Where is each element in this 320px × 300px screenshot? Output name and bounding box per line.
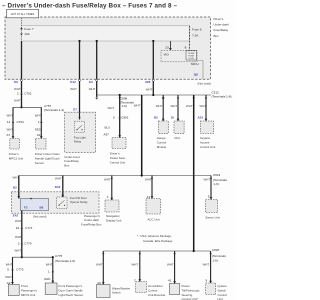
- wire arrow into front passenger MPCS unit: [11, 282, 14, 284]
- fog light relay sub-box: [74, 121, 84, 132]
- svg-text:D16: D16: [55, 185, 61, 189]
- svg-text:WHT: WHT: [46, 262, 53, 266]
- svg-text:Navigation: Navigation: [106, 214, 120, 218]
- wire arrow into power tilt/telescopic unit: [173, 281, 176, 283]
- svg-text:Stereo Unit: Stereo Unit: [205, 216, 220, 220]
- svg-text:WHT: WHT: [55, 177, 62, 181]
- fuse 8 wire (dashed): [189, 26, 191, 51]
- svg-text:WHT: WHT: [5, 275, 12, 279]
- svg-text:Immobilizer: Immobilizer: [148, 284, 163, 288]
- svg-text:Passenger’s: Passenger’s: [21, 288, 38, 292]
- C919 drops: bose unit: [210, 176, 212, 180]
- C919 drops: ACC unit: [151, 176, 153, 180]
- svg-text:WHT: WHT: [15, 235, 22, 239]
- svg-text:WHT: WHT: [132, 262, 139, 266]
- svg-text:WHT: WHT: [7, 114, 14, 118]
- drop: DLC: [177, 98, 180, 100]
- svg-text:WHT: WHT: [7, 128, 14, 132]
- svg-text:Display Unit: Display Unit: [106, 218, 122, 222]
- svg-text:Fuse/Relay: Fuse/Relay: [214, 28, 229, 32]
- fuse 7: [20, 27, 23, 29]
- svg-text:WHT: WHT: [104, 177, 111, 181]
- svg-text:A7: A7: [7, 133, 11, 137]
- wire arrow into MICU: [169, 48, 172, 50]
- C926 line: [103, 250, 210, 252]
- svg-text:Fog Light: Fog Light: [74, 135, 86, 139]
- wire K9: [21, 41, 23, 107]
- svg-text:Ignition: Ignition: [218, 284, 228, 288]
- drop: power seat: [119, 94, 121, 96]
- wire arrow into fuel fill relay coil: [17, 196, 20, 198]
- svg-text:14: 14: [7, 120, 11, 124]
- svg-text:C901: C901: [121, 116, 129, 120]
- drop: long wire to C919 line: [141, 95, 143, 176]
- svg-text:D12: D12: [70, 80, 76, 84]
- wire arrow into immobilizer unit: [138, 279, 141, 281]
- svg-text:(Terminals: (Terminals: [212, 254, 226, 258]
- svg-text:C773: C773: [16, 268, 24, 272]
- svg-text:C775: C775: [55, 254, 63, 258]
- MICU dashed box: [161, 50, 197, 62]
- svg-text:Control Unit: Control Unit: [200, 145, 215, 149]
- wire arrow into power seat control unit: [118, 135, 121, 137]
- svg-text:(Not used): (Not used): [33, 214, 47, 218]
- svg-text:1-6): 1-6): [214, 182, 219, 186]
- svg-text:(Terminals 1-4): (Terminals 1-4): [44, 108, 64, 112]
- svg-text:Passenger’s: Passenger’s: [84, 214, 101, 218]
- svg-text:(Terminals 1-6): (Terminals 1-6): [212, 95, 232, 99]
- svg-text:B6: B6: [40, 206, 44, 210]
- svg-text:(Terminals 1-6): (Terminals 1-6): [55, 259, 75, 263]
- svg-text:WHT: WHT: [15, 219, 22, 223]
- svg-text:Driver’s: Driver’s: [214, 17, 224, 21]
- svg-text:WHT: WHT: [134, 104, 141, 108]
- svg-text:RED: RED: [44, 277, 50, 281]
- drop: ignition switch: [209, 251, 211, 255]
- svg-text:WHT: WHT: [14, 87, 21, 91]
- wire from hot box to fuse 7: [21, 18, 23, 41]
- svg-text:1-6): 1-6): [122, 104, 127, 108]
- svg-text:WHT: WHT: [35, 114, 42, 118]
- wire G3 feeding C808 line: [96, 41, 98, 97]
- wire arrow into Driver's door outer handle sensor: [40, 136, 43, 138]
- svg-text:Front: Front: [21, 284, 28, 288]
- drop: long wire to C926 line: [192, 98, 195, 100]
- left drop to Driver's MPCS unit: [12, 107, 14, 138]
- C919 line: [19, 175, 211, 177]
- svg-text:Fuse 8: Fuse 8: [192, 27, 202, 31]
- svg-text:HOT AT ALL TIMES: HOT AT ALL TIMES: [11, 12, 35, 16]
- driver's under-dash fuse/relay box (dashed enclosure): [5, 17, 211, 79]
- svg-text:G3: G3: [89, 80, 93, 84]
- label: Driver's Under-dash Fuse/Relay Box: [214, 17, 229, 38]
- svg-text:Driver’s: Driver’s: [110, 152, 120, 156]
- coil box: [21, 199, 49, 211]
- svg-text:Under-dash: Under-dash: [84, 218, 99, 222]
- svg-text:C771: C771: [25, 226, 33, 230]
- svg-text:ACC Unit: ACC Unit: [148, 217, 160, 221]
- svg-text:WHT: WHT: [171, 104, 178, 108]
- wire arrow into gauge control module: [162, 119, 165, 121]
- svg-text:Fuse/Relay Box: Fuse/Relay Box: [81, 223, 102, 227]
- wire arrow into wiper/washer switch: [102, 282, 105, 284]
- drop: wiper/washer switch: [102, 251, 104, 255]
- svg-text:WHT: WHT: [200, 104, 207, 108]
- svg-text:WHT: WHT: [156, 104, 163, 108]
- svg-text:E43: E43: [13, 213, 19, 217]
- right drop to Driver's door outer handle: [40, 107, 42, 138]
- dome fuse lock sub-box: [186, 51, 197, 60]
- svg-text:Under-dash: Under-dash: [214, 23, 229, 27]
- svg-text:WHT: WHT: [14, 99, 21, 103]
- svg-text:E7: E7: [73, 108, 77, 112]
- wire arrow into DLC: [177, 119, 180, 121]
- svg-text:Module: Module: [157, 145, 167, 149]
- svg-text:C754: C754: [17, 120, 25, 124]
- wire X28 feeding C808 line: [152, 41, 154, 95]
- svg-text:VIO: VIO: [164, 52, 170, 56]
- E43 chain down: [21, 211, 23, 258]
- wire arrow into stereo unit: [210, 197, 213, 199]
- svg-text:Switch: Switch: [112, 291, 121, 295]
- svg-text:K9: K9: [14, 80, 18, 84]
- svg-text:WHT: WHT: [203, 262, 210, 266]
- svg-text:Under-hood: Under-hood: [64, 155, 80, 159]
- svg-text:WHT: WHT: [186, 104, 193, 108]
- svg-text:WHT: WHT: [167, 262, 174, 266]
- svg-text:WHT: WHT: [70, 87, 77, 91]
- Q8 exit wire: [197, 60, 204, 62]
- drop: front passenger door handle: [52, 257, 54, 283]
- Driver's MPCS unit box: [10, 139, 19, 150]
- svg-text:Relay: Relay: [74, 140, 82, 144]
- svg-text:Control: Control: [218, 293, 228, 297]
- wire arrow into ACC unit: [151, 196, 154, 198]
- svg-text:10A: 10A: [24, 32, 30, 36]
- wire arrow into Driver's MPCS unit: [12, 136, 15, 138]
- svg-text:A37: A37: [104, 132, 110, 136]
- svg-text:MICU: MICU: [191, 62, 199, 66]
- D16 wire: [62, 176, 64, 198]
- svg-text:Steering: Steering: [182, 293, 193, 297]
- svg-text:Driver’s: Driver’s: [9, 152, 19, 156]
- fuel fill door opener relay box: [11, 192, 99, 213]
- svg-text:* : USA: Advance Package,: * : USA: Advance Package,: [137, 234, 172, 238]
- svg-text:7.5A: 7.5A: [192, 33, 199, 37]
- svg-text:DLC: DLC: [175, 136, 181, 140]
- svg-text:Control Unit: Control Unit: [110, 160, 125, 164]
- wire arrow into front passenger door handle sensor: [51, 281, 54, 283]
- svg-text:Control: Control: [157, 140, 167, 144]
- svg-text:X28: X28: [145, 80, 151, 84]
- svg-text:C752: C752: [24, 92, 32, 96]
- svg-text:WHT: WHT: [89, 87, 96, 91]
- svg-text:WHT: WHT: [6, 262, 13, 266]
- svg-text:RED: RED: [35, 128, 41, 132]
- drop: immobilizer: [139, 251, 141, 255]
- hot at all times box: [6, 10, 38, 18]
- svg-text:Wiper/Washer: Wiper/Washer: [112, 286, 130, 290]
- svg-text:MPCS Unit: MPCS Unit: [9, 156, 23, 160]
- svg-text:Fuel Fill Door: Fuel Fill Door: [70, 196, 87, 200]
- svg-text:WHT: WHT: [96, 262, 103, 266]
- svg-text:LOCK: LOCK: [188, 58, 194, 60]
- svg-text:41: 41: [168, 278, 172, 282]
- svg-text:Power Seat: Power Seat: [110, 156, 125, 160]
- junction to C757 line: [20, 106, 22, 108]
- svg-text:(Terminals: (Terminals: [213, 178, 227, 182]
- svg-text:BLU: BLU: [105, 125, 111, 129]
- svg-text:C919: C919: [213, 173, 221, 177]
- svg-text:C926: C926: [212, 248, 220, 252]
- svg-text:Fuse/Relay: Fuse/Relay: [64, 159, 79, 163]
- svg-text:Control: Control: [148, 288, 158, 292]
- internal bus box: [22, 26, 190, 41]
- svg-text:Box: Box: [214, 34, 220, 38]
- drop: gauge control module: [162, 95, 165, 100]
- svg-text:Gauge: Gauge: [157, 136, 166, 140]
- svg-text:A23: A23: [198, 116, 204, 120]
- svg-text:Switch: Switch: [218, 288, 227, 292]
- svg-text:Canada: Elite Package: Canada: Elite Package: [143, 239, 173, 243]
- svg-text:– Driver’s Under-dash Fuse/Rel: – Driver’s Under-dash Fuse/Relay Box – F…: [2, 3, 177, 10]
- svg-text:Unit-Receiver: Unit-Receiver: [148, 293, 166, 297]
- svg-text:WHT: WHT: [13, 176, 20, 180]
- svg-text:WHT: WHT: [145, 177, 152, 181]
- svg-text:16: 16: [171, 116, 175, 120]
- svg-text:WHT: WHT: [204, 177, 211, 181]
- C808 / C312 line: [97, 94, 211, 96]
- wire arrow into keyless access control unit: [205, 119, 208, 121]
- svg-text:16: 16: [16, 226, 20, 230]
- svg-text:23: 23: [165, 45, 169, 49]
- svg-text:1-6): 1-6): [213, 259, 218, 263]
- wire arrow into fuel fill relay contact: [61, 195, 64, 197]
- svg-text:WHT: WHT: [146, 87, 153, 91]
- drop: power tilt: [173, 251, 175, 255]
- C775 line: [21, 256, 23, 258]
- svg-text:F2: F2: [24, 206, 28, 210]
- bus junction dots: [78, 40, 80, 42]
- under-hood fuse/relay box: [65, 112, 96, 152]
- svg-text:Opener Relay: Opener Relay: [70, 200, 88, 204]
- svg-text:Q8: Q8: [194, 73, 198, 77]
- wire 23 from bus into MICU: [169, 41, 171, 50]
- svg-text:C779: C779: [24, 242, 32, 246]
- svg-text:B2: B2: [13, 186, 17, 190]
- svg-text:WHT: WHT: [15, 248, 22, 252]
- svg-text:Keyless: Keyless: [200, 136, 211, 140]
- svg-text:WHT: WHT: [108, 106, 115, 110]
- svg-text:(Not used): (Not used): [198, 81, 212, 85]
- B2 wire into fuel fill relay box: [18, 176, 20, 199]
- wire D12 to fog light relay: [79, 41, 81, 121]
- C919 drops: navigation display: [111, 176, 113, 180]
- svg-text:Tilt/Telescopic: Tilt/Telescopic: [182, 288, 201, 292]
- svg-text:Fuse 7: Fuse 7: [24, 27, 34, 31]
- svg-text:Access: Access: [200, 140, 210, 144]
- svg-text:Box: Box: [64, 164, 70, 168]
- svg-text:MPCS Unit: MPCS Unit: [21, 293, 35, 297]
- wire arrow into ignition switch control unit: [209, 281, 212, 283]
- wire arrow into navigation display unit: [110, 198, 113, 200]
- drop: keyless access: [205, 98, 208, 100]
- drop: front passenger MPCS: [12, 257, 14, 284]
- svg-text:B2: B2: [154, 116, 158, 120]
- relay contact sub-box: [57, 197, 68, 209]
- svg-text:Power: Power: [182, 284, 190, 288]
